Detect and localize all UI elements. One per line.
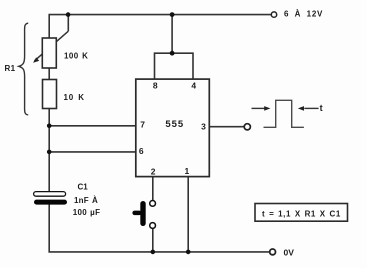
svg-text:t = 1,1 X R1 X C1: t = 1,1 X R1 X C1 bbox=[262, 209, 341, 218]
svg-text:1nF À: 1nF À bbox=[74, 196, 98, 205]
svg-text:100 K: 100 K bbox=[64, 52, 88, 61]
svg-text:t: t bbox=[320, 103, 323, 113]
svg-text:2: 2 bbox=[151, 167, 156, 177]
svg-text:6: 6 bbox=[139, 146, 144, 156]
svg-text:8: 8 bbox=[153, 81, 158, 91]
svg-text:1: 1 bbox=[185, 166, 190, 176]
svg-text:0V: 0V bbox=[284, 247, 295, 257]
svg-text:4: 4 bbox=[191, 81, 196, 91]
svg-text:10 K: 10 K bbox=[64, 93, 85, 102]
svg-text:100 µF: 100 µF bbox=[73, 208, 100, 217]
svg-text:6 À 12V: 6 À 12V bbox=[284, 10, 323, 19]
svg-text:555: 555 bbox=[165, 119, 184, 130]
svg-text:7: 7 bbox=[140, 119, 145, 129]
svg-text:3: 3 bbox=[201, 121, 206, 131]
svg-text:C1: C1 bbox=[78, 183, 89, 192]
svg-text:R1: R1 bbox=[5, 64, 16, 73]
